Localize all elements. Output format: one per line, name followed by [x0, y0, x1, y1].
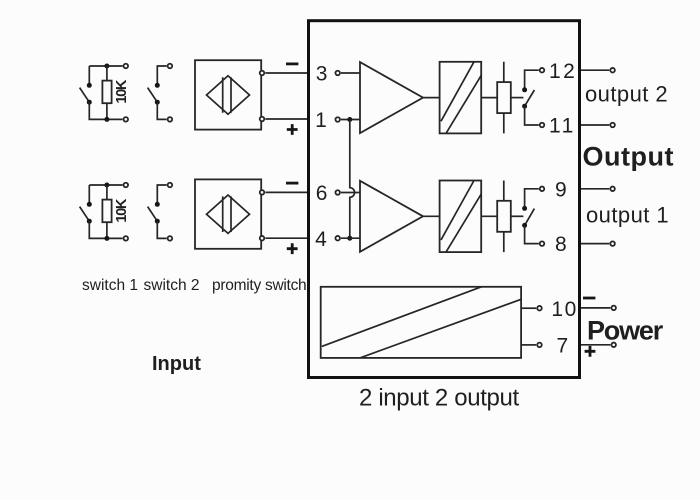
svg-text:3: 3: [316, 63, 328, 86]
resistor (output load, channel 9): [497, 181, 511, 253]
wire: [89, 102, 122, 119]
svg-text:switch 2: switch 2: [144, 277, 200, 294]
wire (amp to isolator): [423, 97, 440, 99]
wire: [88, 185, 90, 204]
wire (resistor to contact): [511, 97, 524, 99]
wire (amp to isolator): [423, 215, 440, 217]
terminal (switch 1 top): [124, 183, 129, 188]
pin 4 terminal: [335, 236, 340, 241]
wire (isolator to resistor): [481, 215, 497, 217]
svg-text:Power: Power: [587, 316, 664, 346]
label minus (B1): [286, 63, 298, 66]
junction: [104, 236, 109, 241]
switch SW2 contact: [155, 202, 160, 207]
switch SW1 blade: [80, 88, 90, 103]
wire (switch 2 top): [157, 185, 166, 204]
isolation barrier (channel 12): [440, 62, 482, 134]
svg-text:7: 7: [557, 335, 569, 358]
relay contact (channel 9): [522, 223, 527, 228]
svg-text:9: 9: [555, 178, 567, 201]
svg-text:Input: Input: [152, 353, 201, 375]
wire: [157, 102, 166, 119]
pin 8 terminal: [540, 241, 545, 246]
terminal (external output 1 +): [610, 187, 615, 192]
relay contact (channel 12): [522, 87, 527, 92]
wire: [525, 70, 539, 90]
pin 11 terminal: [540, 123, 545, 128]
pin 10 terminal: [537, 306, 542, 311]
wire (resistor to contact): [511, 215, 524, 217]
terminal (external output 2 -): [610, 123, 615, 128]
wire: [88, 66, 90, 85]
resistor (output load, channel 12): [497, 62, 511, 134]
label plus (B2): [287, 243, 298, 254]
relay blade (channel 12): [525, 90, 535, 106]
proximity switch B1 plates: [223, 77, 231, 113]
wire (power to pin 7): [521, 344, 536, 346]
wire (switch 1 top rail): [89, 65, 122, 67]
wire: [525, 225, 539, 243]
terminal (B1 plus): [260, 117, 265, 122]
svg-text:promity switch: promity switch: [212, 277, 306, 294]
wire (external output 1 -): [581, 243, 609, 245]
svg-text:output 1: output 1: [586, 202, 669, 227]
switch SW1 contact: [87, 219, 92, 224]
label minus (B2): [286, 182, 298, 185]
proximity switch B1 body: [195, 60, 261, 129]
wire (pin 6 to amp): [341, 192, 360, 194]
wire (pin 1 to amp): [341, 119, 360, 121]
pin 6 terminal: [335, 190, 340, 195]
wire: [525, 189, 539, 209]
junction: [104, 117, 109, 122]
relay contact (channel 12): [522, 104, 527, 109]
isolation barrier (channel 9): [440, 181, 482, 253]
svg-text:switch 1: switch 1: [82, 277, 138, 294]
svg-text:2 input 2 output: 2 input 2 output: [359, 385, 520, 412]
proximity switch B1 diamond: [207, 76, 250, 114]
power supply block: [321, 287, 521, 358]
op-amp (channel 12): [360, 62, 423, 133]
wire: [157, 221, 166, 238]
switch SW2 blade: [148, 207, 158, 222]
terminal (switch 1 top): [124, 64, 129, 69]
proximity switch B2 body: [195, 179, 261, 248]
junction (pin 4 node): [347, 236, 352, 241]
terminal (external power +): [611, 343, 616, 348]
switch SW2 contact: [155, 83, 160, 88]
switch SW2 contact: [155, 219, 160, 224]
pin 9 terminal: [540, 187, 545, 192]
svg-text:6: 6: [316, 182, 328, 205]
pin 1 terminal: [335, 117, 340, 122]
pin 12 terminal: [540, 68, 545, 73]
junction: [104, 183, 109, 188]
svg-text:10K: 10K: [114, 79, 130, 103]
switch SW1 contact: [87, 100, 92, 105]
wire: [525, 106, 539, 125]
terminal (switch 2 bottom): [168, 117, 173, 122]
wire (B2 minus to pin): [265, 191, 308, 193]
switch SW1 contact: [87, 83, 92, 88]
pin 7 terminal: [537, 343, 542, 348]
isolator module outline: [309, 21, 580, 378]
svg-text:12: 12: [549, 60, 577, 83]
resistor R1 10K: [102, 66, 111, 119]
terminal (B1 minus): [260, 71, 265, 76]
svg-text:1: 1: [315, 109, 327, 132]
wire (external power +): [581, 344, 610, 346]
svg-text:4: 4: [315, 228, 327, 251]
wire: [89, 221, 122, 238]
relay contact (channel 9): [522, 206, 527, 211]
terminal (B2 plus): [260, 236, 265, 241]
svg-text:10K: 10K: [114, 198, 130, 222]
proximity switch B2 diamond: [207, 195, 250, 233]
wire (external output 1 +): [581, 188, 609, 190]
wire (B1 minus to pin): [265, 72, 308, 74]
wire (power to pin 10): [521, 307, 536, 309]
wire (switch 1 top rail): [89, 184, 122, 186]
svg-text:8: 8: [555, 233, 567, 256]
switch SW2 contact: [155, 100, 160, 105]
terminal (switch 2 top): [168, 183, 173, 188]
terminal (external output 2 +): [610, 68, 615, 73]
terminal (external power -): [611, 306, 616, 311]
svg-text:output 2: output 2: [585, 82, 668, 107]
wire (external output 2 +): [581, 69, 609, 71]
pin 3 terminal: [335, 71, 340, 76]
svg-text:Output: Output: [583, 142, 674, 172]
junction: [104, 64, 109, 69]
terminal (switch 1 bottom): [124, 117, 129, 122]
proximity switch B2 plates: [223, 196, 231, 232]
wire (external output 2 -): [581, 124, 609, 126]
terminal (switch 1 bottom): [124, 236, 129, 241]
terminal (switch 2 bottom): [168, 236, 173, 241]
switch SW1 blade: [80, 207, 90, 222]
terminal (external output 1 -): [610, 241, 615, 246]
wire (pin 4 to amp): [341, 237, 360, 239]
wire (switch 2 top): [157, 66, 166, 85]
label plus (power): [585, 346, 596, 357]
wire (isolator to resistor): [481, 97, 497, 99]
relay blade (channel 9): [525, 209, 535, 226]
wire (B2 plus to pin): [265, 237, 308, 239]
terminal (switch 2 top): [168, 64, 173, 69]
svg-text:11: 11: [549, 115, 576, 138]
label minus (power): [583, 297, 595, 300]
terminal (B2 minus): [260, 190, 265, 195]
wire (external power -): [581, 307, 610, 309]
label plus (B1): [287, 124, 298, 135]
switch SW2 blade: [148, 88, 158, 103]
wire (pin 3 to amp): [341, 72, 360, 74]
op-amp (channel 9): [360, 181, 423, 252]
wire (pin 1 to pin 4, crossover hop): [350, 120, 355, 239]
wire (B1 plus to pin): [265, 118, 308, 120]
svg-text:10: 10: [551, 298, 577, 321]
junction (pin 1 node): [347, 117, 352, 122]
switch SW1 contact: [87, 202, 92, 207]
resistor R1 10K: [102, 185, 111, 238]
